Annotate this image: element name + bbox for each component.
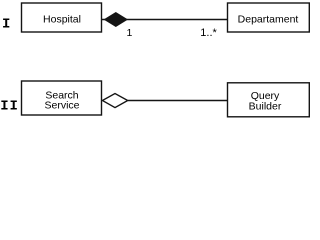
svg-text:II: II [0,99,19,115]
svg-text:Hospital: Hospital [43,14,81,26]
svg-text:1..*: 1..* [200,27,217,39]
svg-text:Service: Service [44,100,79,112]
svg-text:1: 1 [127,27,133,39]
svg-text:Departament: Departament [238,14,299,26]
svg-text:Builder: Builder [249,101,282,113]
svg-text:I: I [2,17,10,33]
